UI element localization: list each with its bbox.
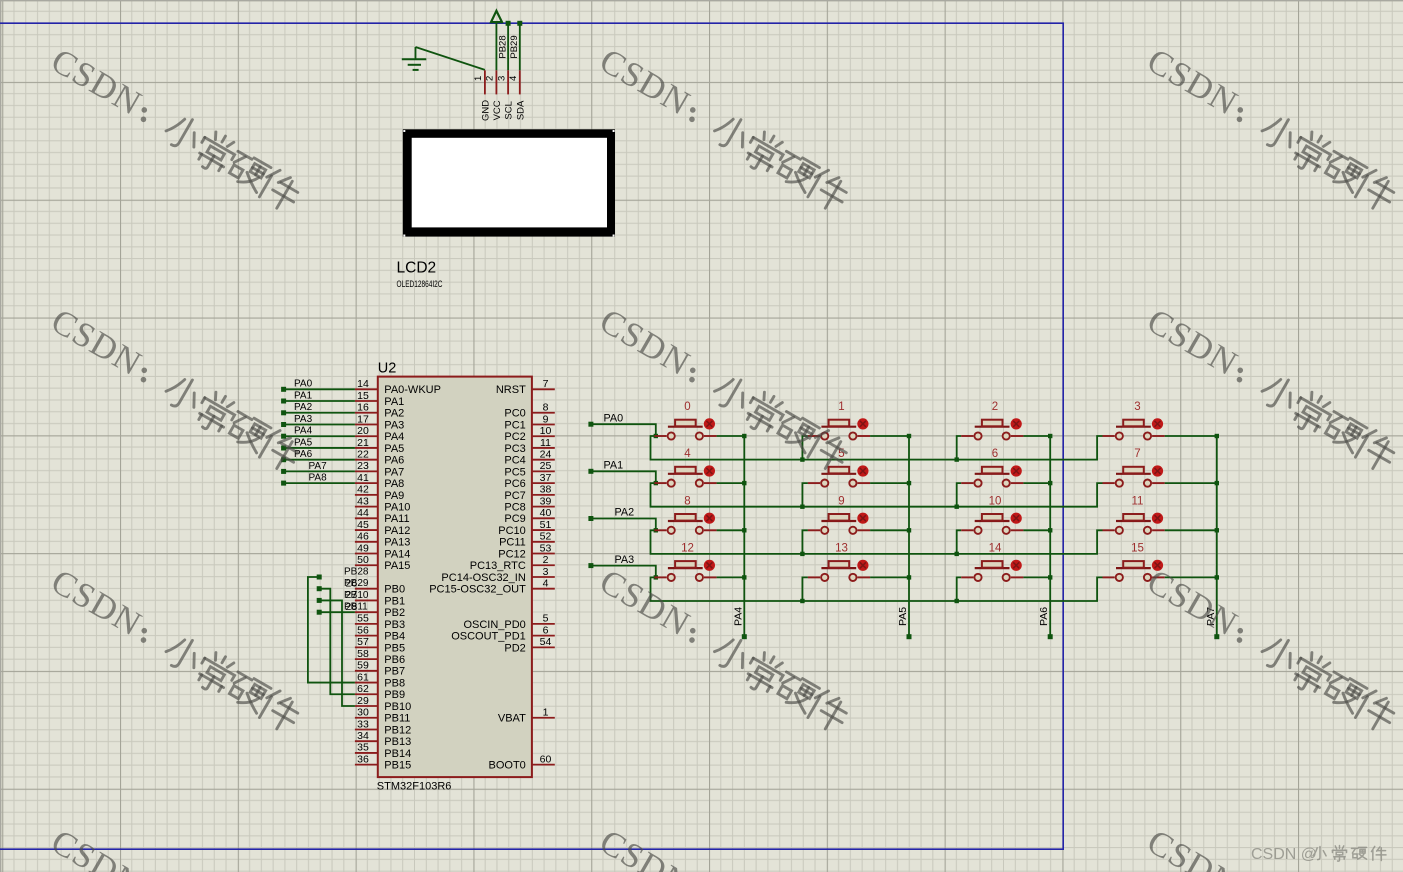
svg-text:NRST: NRST <box>496 384 526 396</box>
wire row2 col2 riser <box>957 530 962 554</box>
svg-text:PC3: PC3 <box>504 443 525 455</box>
node PA3 terminal <box>281 422 286 427</box>
junction col1 row1 <box>907 481 911 485</box>
svg-text:PA11: PA11 <box>384 513 409 525</box>
pin 26 PB0 <box>355 588 378 590</box>
svg-text:PA8: PA8 <box>309 473 328 484</box>
button 13 <box>808 542 909 581</box>
svg-text:PA12: PA12 <box>384 525 410 537</box>
pin 27 PB1 <box>355 599 378 601</box>
svg-text:6: 6 <box>992 448 998 460</box>
wire PA3 <box>285 423 355 425</box>
svg-text:6: 6 <box>543 624 549 636</box>
button 15 <box>1103 542 1217 581</box>
svg-text:20: 20 <box>357 425 369 437</box>
svg-text:53: 53 <box>540 542 552 554</box>
node PA4 terminal <box>281 434 286 439</box>
svg-text:PC8: PC8 <box>504 502 525 514</box>
svg-text:PB13: PB13 <box>384 736 411 748</box>
wire row3 col1 riser <box>802 577 808 601</box>
pin 5 OSCIN_PD0 <box>532 623 555 625</box>
svg-text:PB28: PB28 <box>344 566 369 577</box>
wire PA7 column bus <box>1216 436 1218 635</box>
svg-text:PC0: PC0 <box>504 408 525 420</box>
svg-text:PA0-WKUP: PA0-WKUP <box>384 384 441 396</box>
wire PA6 column bus <box>1049 436 1051 635</box>
junction col1 row3 <box>907 575 911 579</box>
junction row3 col1 <box>800 599 804 603</box>
pin 15 PA1 <box>355 400 378 402</box>
svg-text:5: 5 <box>543 613 549 625</box>
junction col0 row2 <box>742 528 746 532</box>
svg-text:STM32F103R6: STM32F103R6 <box>377 781 452 793</box>
junction col2 row3 <box>1048 575 1052 579</box>
svg-text:PA1: PA1 <box>294 390 313 401</box>
svg-text:PA6: PA6 <box>1038 607 1050 626</box>
pin 6 OSCOUT_PD1 <box>532 635 555 637</box>
junction col3 row3 <box>1215 575 1219 579</box>
node PB11 terminal <box>317 610 322 615</box>
svg-text:42: 42 <box>357 484 369 496</box>
node PA4 terminal <box>742 634 747 639</box>
svg-text:35: 35 <box>357 742 369 754</box>
svg-text:56: 56 <box>357 624 369 636</box>
wire row1 bus <box>651 483 1103 507</box>
pin 53 PC12 <box>532 553 555 555</box>
svg-text:7: 7 <box>1134 448 1140 460</box>
wire PA0 row lead <box>591 424 656 436</box>
pin 4 LCD2 <box>519 70 521 94</box>
pin 23 PA7 <box>355 470 378 472</box>
pin 28 PB2 <box>355 611 378 613</box>
svg-text:3: 3 <box>496 76 507 81</box>
pin 4 PC15-OSC32_OUT <box>532 588 555 590</box>
svg-text:PA7: PA7 <box>309 461 328 472</box>
svg-text:9: 9 <box>543 413 549 425</box>
junction col3 row1 <box>1215 481 1219 485</box>
junction col0 row0 <box>742 434 746 438</box>
pin 7 NRST <box>532 388 555 390</box>
svg-text:4: 4 <box>684 448 691 460</box>
svg-text:17: 17 <box>357 413 369 425</box>
watermark <box>44 41 306 216</box>
node PA0 terminal <box>281 387 286 392</box>
svg-text:60: 60 <box>540 753 552 765</box>
svg-text:51: 51 <box>540 519 552 531</box>
svg-text:SCL: SCL <box>504 101 515 119</box>
junction row1 col0 <box>654 481 658 485</box>
junction col3 row0 <box>1215 434 1219 438</box>
svg-text:PB3: PB3 <box>384 619 405 631</box>
svg-text:25: 25 <box>540 460 552 472</box>
svg-text:OLED12864I2C: OLED12864I2C <box>397 279 443 289</box>
wire PB28 net <box>308 577 355 683</box>
pin 44 PA11 <box>355 517 378 519</box>
pin 59 PB7 <box>355 670 378 672</box>
wire PA5 <box>285 447 355 449</box>
svg-text:PA3: PA3 <box>294 414 313 425</box>
junction col1 row0 <box>907 434 911 438</box>
svg-text:1: 1 <box>543 707 549 719</box>
node PA2 terminal <box>588 516 593 521</box>
svg-text:40: 40 <box>540 507 552 519</box>
svg-text:PC9: PC9 <box>504 513 525 525</box>
svg-text:PA4: PA4 <box>384 431 404 443</box>
svg-text:11: 11 <box>1132 495 1144 507</box>
svg-text:PA0: PA0 <box>604 412 624 424</box>
pin 39 PC8 <box>532 506 555 508</box>
wire row0 col2 riser <box>957 436 962 460</box>
junction row3 col0 <box>654 575 658 579</box>
wire PA6 <box>285 459 355 461</box>
pin 1 VBAT <box>532 717 555 719</box>
svg-text:BOOT0: BOOT0 <box>489 760 526 772</box>
svg-text:PB10: PB10 <box>344 590 369 601</box>
watermark <box>44 561 306 736</box>
svg-text:10: 10 <box>989 495 1002 507</box>
svg-text:PB29: PB29 <box>509 35 520 58</box>
junction col2 row1 <box>1048 481 1052 485</box>
button 1 <box>808 401 909 440</box>
junction row3 col2 <box>955 599 959 603</box>
wire PA3 row lead <box>591 566 656 578</box>
pin 14 PA0-WKUP <box>355 388 378 390</box>
svg-text:PB1: PB1 <box>384 595 405 607</box>
junction col2 row0 <box>1048 434 1052 438</box>
svg-text:PB29: PB29 <box>344 578 369 589</box>
svg-text:PB11: PB11 <box>344 602 368 613</box>
svg-text:PB28: PB28 <box>497 35 508 58</box>
svg-text:VBAT: VBAT <box>498 713 526 725</box>
node PA3 terminal <box>588 563 593 568</box>
svg-text:1: 1 <box>473 76 484 81</box>
svg-text:PC15-OSC32_OUT: PC15-OSC32_OUT <box>429 584 526 596</box>
junction row2 col0 <box>654 528 658 532</box>
svg-text:43: 43 <box>357 495 369 507</box>
pin 42 PA9 <box>355 494 378 496</box>
svg-text:PB0: PB0 <box>384 584 405 596</box>
svg-text:OSCIN_PD0: OSCIN_PD0 <box>463 619 525 631</box>
svg-text:LCD2: LCD2 <box>397 260 437 277</box>
power VCC arrow <box>491 11 502 22</box>
wire PA2 row lead <box>591 519 656 531</box>
node PA6 terminal <box>281 457 286 462</box>
pin 3 PC14-OSC32_IN <box>532 576 555 578</box>
svg-text:9: 9 <box>838 495 844 507</box>
pin 16 PA2 <box>355 412 378 414</box>
junction col3 row2 <box>1215 528 1219 532</box>
svg-text:3: 3 <box>543 566 549 578</box>
svg-text:PB11: PB11 <box>384 713 410 725</box>
svg-text:PA1: PA1 <box>604 460 624 472</box>
svg-text:PA6: PA6 <box>384 455 404 467</box>
pin 30 PB11 <box>355 717 378 719</box>
pin 45 PA12 <box>355 529 378 531</box>
pin 61 PB8 <box>355 682 378 684</box>
button 11 <box>1103 495 1217 534</box>
wire gnd-diagonal <box>416 47 485 70</box>
node PA7 terminal <box>281 469 286 474</box>
pin 35 PB14 <box>355 752 378 754</box>
wire PB11 net <box>319 611 355 613</box>
pin 37 PC6 <box>532 482 555 484</box>
footer CSDN watermark <box>1251 846 1386 864</box>
svg-text:2: 2 <box>485 76 496 81</box>
button 6 <box>961 448 1050 487</box>
svg-text:PC12: PC12 <box>498 548 526 560</box>
button 10 <box>961 495 1050 534</box>
pin 55 PB3 <box>355 623 378 625</box>
wire SDA <box>519 23 521 70</box>
wire row3 bus <box>651 577 1103 601</box>
svg-text:PC14-OSC32_IN: PC14-OSC32_IN <box>441 572 525 584</box>
svg-text:49: 49 <box>357 542 369 554</box>
watermark <box>1140 301 1402 476</box>
sheet border <box>0 23 1063 849</box>
svg-text:29: 29 <box>357 695 369 707</box>
svg-text:GND: GND <box>480 100 491 121</box>
svg-text:PA1: PA1 <box>384 396 404 408</box>
svg-text:8: 8 <box>543 402 549 414</box>
pin 40 PC9 <box>532 517 555 519</box>
svg-text:PB14: PB14 <box>384 748 411 760</box>
svg-text:22: 22 <box>357 448 369 460</box>
svg-text:PB9: PB9 <box>384 689 405 701</box>
watermark <box>593 301 855 476</box>
wire PA1 <box>285 400 355 402</box>
svg-text:PA14: PA14 <box>384 548 410 560</box>
node PB10 terminal <box>317 598 322 603</box>
pin 51 PC10 <box>532 529 555 531</box>
svg-text:PA13: PA13 <box>384 537 410 549</box>
svg-text:45: 45 <box>357 519 369 531</box>
pin 43 PA10 <box>355 506 378 508</box>
svg-text:PA0: PA0 <box>294 379 313 390</box>
junction row1 col2 <box>955 505 959 509</box>
pin 46 PA13 <box>355 541 378 543</box>
node PA1 terminal <box>588 469 593 474</box>
svg-text:3: 3 <box>1134 401 1140 413</box>
wire PA8 <box>285 482 355 484</box>
svg-text:50: 50 <box>357 554 369 566</box>
wire PA0 <box>285 388 355 390</box>
svg-text:PB8: PB8 <box>384 677 405 689</box>
svg-text:U2: U2 <box>378 360 397 376</box>
watermark <box>44 822 306 872</box>
wire VCC <box>495 22 497 70</box>
pin 41 PA8 <box>355 482 378 484</box>
pin 24 PC4 <box>532 459 555 461</box>
pin 33 PB12 <box>355 728 378 730</box>
pin 22 PA6 <box>355 459 378 461</box>
pin 54 PD2 <box>532 646 555 648</box>
node PA7 terminal <box>1214 634 1219 639</box>
pin 58 PB6 <box>355 658 378 660</box>
pin 2 PC13_RTC <box>532 564 555 566</box>
svg-text:PB6: PB6 <box>384 654 405 666</box>
svg-text:1: 1 <box>838 401 844 413</box>
pin 20 PA4 <box>355 435 378 437</box>
node PB29 terminal <box>317 586 322 591</box>
svg-text:4: 4 <box>543 578 549 590</box>
junction row0 col1 <box>800 457 804 461</box>
wire row2 bus <box>651 530 1103 554</box>
svg-text:46: 46 <box>357 531 369 543</box>
button 9 <box>808 495 909 534</box>
wire PA7 <box>285 470 355 472</box>
op U2 body <box>378 377 532 777</box>
wire PB29 net <box>319 589 355 695</box>
svg-text:PB7: PB7 <box>384 666 405 678</box>
junction row2 col2 <box>955 552 959 556</box>
svg-text:PA15: PA15 <box>384 560 410 572</box>
svg-text:PA5: PA5 <box>294 437 313 448</box>
pin 3 LCD2 <box>507 70 509 94</box>
node PA1 terminal <box>281 399 286 404</box>
pin 36 PB15 <box>355 764 378 766</box>
wire row2 col1 riser <box>802 530 808 554</box>
svg-text:PB5: PB5 <box>384 642 405 654</box>
watermark <box>1140 822 1402 872</box>
svg-text:14: 14 <box>357 378 369 390</box>
svg-text:PA4: PA4 <box>294 426 313 437</box>
svg-text:34: 34 <box>357 730 369 742</box>
wire row3 col2 riser <box>957 577 962 601</box>
pin 50 PA15 <box>355 564 378 566</box>
node PA5 terminal <box>907 634 912 639</box>
svg-text:36: 36 <box>357 753 369 765</box>
wire PA1 row lead <box>591 471 656 483</box>
svg-text:PC1: PC1 <box>504 419 525 431</box>
svg-text:PB15: PB15 <box>384 760 411 772</box>
svg-text:CSDN @: CSDN @ <box>1251 846 1317 863</box>
pin 38 PC7 <box>532 494 555 496</box>
watermark <box>593 822 855 872</box>
svg-text:PB2: PB2 <box>384 607 405 619</box>
pin 10 PC2 <box>532 435 555 437</box>
svg-text:37: 37 <box>540 472 552 484</box>
svg-text:13: 13 <box>835 542 848 554</box>
pin 21 PA5 <box>355 447 378 449</box>
junction col0 row1 <box>742 481 746 485</box>
pin 25 PC5 <box>532 470 555 472</box>
button 7 <box>1103 448 1217 487</box>
svg-text:52: 52 <box>540 531 552 543</box>
pin 52 PC11 <box>532 541 555 543</box>
button 8 <box>654 495 744 534</box>
svg-text:15: 15 <box>1131 542 1144 554</box>
svg-text:PC6: PC6 <box>504 478 525 490</box>
svg-text:0: 0 <box>684 401 690 413</box>
wire PA2 <box>285 412 355 414</box>
button 0 <box>654 401 744 440</box>
node PA8 terminal <box>281 481 286 486</box>
svg-text:PA3: PA3 <box>384 419 404 431</box>
pin 60 BOOT0 <box>532 764 555 766</box>
junction col2 row2 <box>1048 528 1052 532</box>
svg-text:PA9: PA9 <box>384 490 404 502</box>
node PA2 terminal <box>281 410 286 415</box>
button 5 <box>808 448 909 487</box>
svg-text:PC11: PC11 <box>499 537 526 549</box>
svg-text:2: 2 <box>992 401 998 413</box>
svg-text:PA10: PA10 <box>384 502 410 514</box>
svg-text:14: 14 <box>989 542 1002 554</box>
wire PA4 column bus <box>743 436 745 635</box>
svg-text:21: 21 <box>357 437 369 449</box>
pin 62 PB9 <box>355 693 378 695</box>
svg-text:PA2: PA2 <box>294 402 313 413</box>
wire row1 col1 riser <box>802 483 808 507</box>
svg-text:PA2: PA2 <box>615 507 635 519</box>
wire PA4 <box>285 435 355 437</box>
svg-text:PD2: PD2 <box>504 642 525 654</box>
watermark <box>1140 41 1402 216</box>
watermark <box>1140 561 1402 736</box>
svg-text:PC2: PC2 <box>504 431 525 443</box>
svg-text:8: 8 <box>684 495 690 507</box>
svg-text:PB12: PB12 <box>384 724 411 736</box>
svg-text:23: 23 <box>357 460 369 472</box>
node PB28 terminal <box>317 575 322 580</box>
svg-text:PC10: PC10 <box>498 525 526 537</box>
svg-text:11: 11 <box>540 437 551 449</box>
junction col0 row3 <box>742 575 746 579</box>
junction row0 col0 <box>654 434 658 438</box>
svg-text:30: 30 <box>357 707 369 719</box>
svg-text:44: 44 <box>357 507 369 519</box>
svg-text:61: 61 <box>357 671 369 683</box>
svg-text:PC7: PC7 <box>504 490 525 502</box>
watermark <box>593 41 855 216</box>
svg-text:SDA: SDA <box>515 100 526 120</box>
wire SCL <box>507 23 509 70</box>
pin 9 PC1 <box>532 423 555 425</box>
LCD2 OLED display body <box>403 129 615 236</box>
button 12 <box>654 542 744 581</box>
svg-text:2: 2 <box>543 554 549 566</box>
svg-text:57: 57 <box>357 636 369 648</box>
svg-text:PA5: PA5 <box>384 443 404 455</box>
pin 8 PC0 <box>532 412 555 414</box>
svg-text:24: 24 <box>540 448 552 460</box>
svg-text:16: 16 <box>357 402 369 414</box>
svg-text:12: 12 <box>681 542 694 554</box>
svg-text:33: 33 <box>357 718 369 730</box>
pin 49 PA14 <box>355 553 378 555</box>
svg-text:55: 55 <box>357 613 369 625</box>
svg-text:10: 10 <box>540 425 552 437</box>
button 14 <box>961 542 1050 581</box>
svg-text:62: 62 <box>357 683 369 695</box>
pin 34 PB13 <box>355 740 378 742</box>
pin 2 LCD2 <box>495 70 497 94</box>
wire row1 col2 riser <box>957 483 962 507</box>
svg-text:PA7: PA7 <box>384 466 404 478</box>
svg-text:PB10: PB10 <box>384 701 411 713</box>
pin 29 PB10 <box>355 705 378 707</box>
pin 11 PC3 <box>532 447 555 449</box>
pin 57 PB5 <box>355 646 378 648</box>
wire row0 col1 riser <box>802 436 808 460</box>
svg-text:7: 7 <box>543 378 549 390</box>
pin 56 PB4 <box>355 635 378 637</box>
svg-text:15: 15 <box>357 390 369 402</box>
button 2 <box>961 401 1050 440</box>
node PB28 terminal <box>506 21 511 26</box>
watermark <box>593 561 855 736</box>
junction row2 col1 <box>800 552 804 556</box>
